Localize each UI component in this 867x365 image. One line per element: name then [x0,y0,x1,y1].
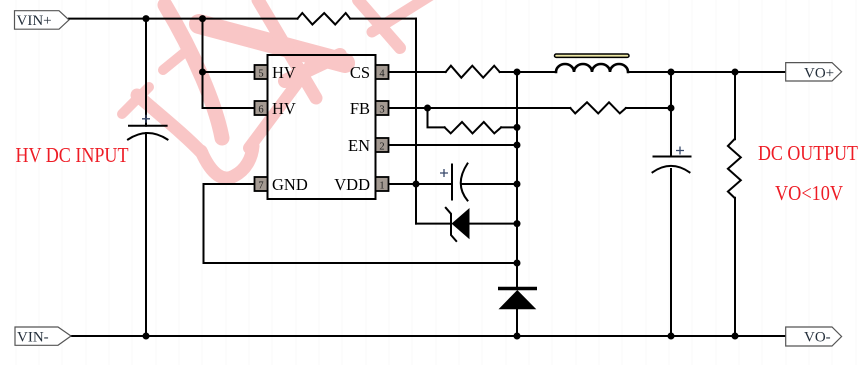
wire zener branch [416,223,517,225]
wire to pin6 [203,107,255,109]
svg-text:1: 1 [379,181,384,192]
wire top rail VIN+ to corner [69,18,416,20]
svg-text:EN: EN [348,136,370,155]
node HV pin5 [199,69,206,76]
capacitor C2 VDD + plate [451,165,453,200]
svg-text:4: 4 [379,69,385,80]
plus sign C1 [142,115,150,123]
node zener [514,220,521,227]
svg-text:6: 6 [258,105,263,116]
pin 6 box [255,101,268,116]
wire bottom rail [71,335,786,337]
svg-text:7: 7 [258,181,263,192]
resistor R3 (FB lower) [445,122,502,133]
capacitor C1 curved plate [128,133,168,140]
watermark [122,0,436,178]
pin 4 box [376,65,389,80]
node cap bottom [668,333,675,340]
node FB right [668,105,675,112]
svg-text:VIN-: VIN- [17,329,49,345]
resistor R1 (top rail) [298,13,351,25]
zener D2 triangle [452,208,470,239]
wire CS node to inductor [500,71,556,73]
svg-text:VIN+: VIN+ [17,13,52,29]
resistor R2 (CS sense) [446,66,500,78]
svg-text:GND: GND [272,175,308,194]
node FB tap [424,105,431,112]
svg-text:HV DC INPUT: HV DC INPUT [16,143,129,167]
svg-text:5: 5 [258,69,263,80]
capacitor C1 input + plate [129,125,167,127]
port flag VO+ [786,63,842,82]
wire EN row [389,144,518,146]
pin 5 box [255,65,268,80]
node VDD cap [514,181,521,188]
wire to pin5 [203,71,255,73]
node diode bottom [514,333,521,340]
svg-text:HV: HV [272,99,296,118]
capacitor C3 curved plate [653,166,690,172]
diode D1 bar [498,287,537,290]
zener D2 cathode bar [446,208,456,241]
plus sign C2 [440,169,448,177]
port flag VIN- [15,327,71,345]
inductor core bar [555,54,630,57]
node VO+ cap [668,69,675,76]
wire FB tap down [428,108,445,127]
wire FB row [389,107,672,109]
plus sign C3 [676,147,684,155]
node SW top [514,69,521,76]
node top rail A [143,15,150,22]
pin 2 box [376,138,389,153]
wire GND loop [204,184,518,263]
node R3 [514,124,521,131]
op IC U1 body [268,55,376,199]
resistor R5 (load) [728,139,741,198]
wire inductor to VO+ [628,71,786,73]
node top rail B [199,15,206,22]
pin 7 box [255,177,268,192]
node load bottom [732,333,739,340]
svg-text:VO-: VO- [804,330,831,346]
node EN [514,142,521,149]
node input bottom [143,333,150,340]
capacitor C3 output + plate [654,156,691,158]
svg-text:VDD: VDD [334,175,370,194]
svg-text:DC OUTPUT: DC OUTPUT [758,141,858,165]
wire output cap column [670,72,672,336]
svg-text:3: 3 [379,105,384,116]
svg-text:HV: HV [272,63,296,82]
svg-text:2: 2 [379,142,384,153]
pin 1 box [376,177,389,192]
node column [516,72,518,336]
svg-text:VO+: VO+ [804,65,834,81]
port flag VIN+ [15,11,70,30]
node load top [732,69,739,76]
port flag VO- [786,327,842,346]
inductor L1 [556,64,628,72]
diode D1 triangle [499,290,537,309]
wire CS to resistor [389,71,446,73]
wire HV feed column [202,19,204,108]
svg-text:FB: FB [350,99,370,118]
node GND return [514,260,521,267]
wire load column [734,72,736,336]
resistor R4 (FB upper) [570,102,626,113]
wire input cap column [145,19,147,336]
node VDD [413,181,420,188]
capacitor C2 curved plate [461,164,468,201]
svg-text:VO<10V: VO<10V [775,181,843,205]
wire right drop from top rail [415,19,417,224]
wire R3 to node [501,126,517,128]
wire VDD row [389,183,518,185]
svg-text:CS: CS [350,63,370,82]
pin 3 box [376,101,389,116]
